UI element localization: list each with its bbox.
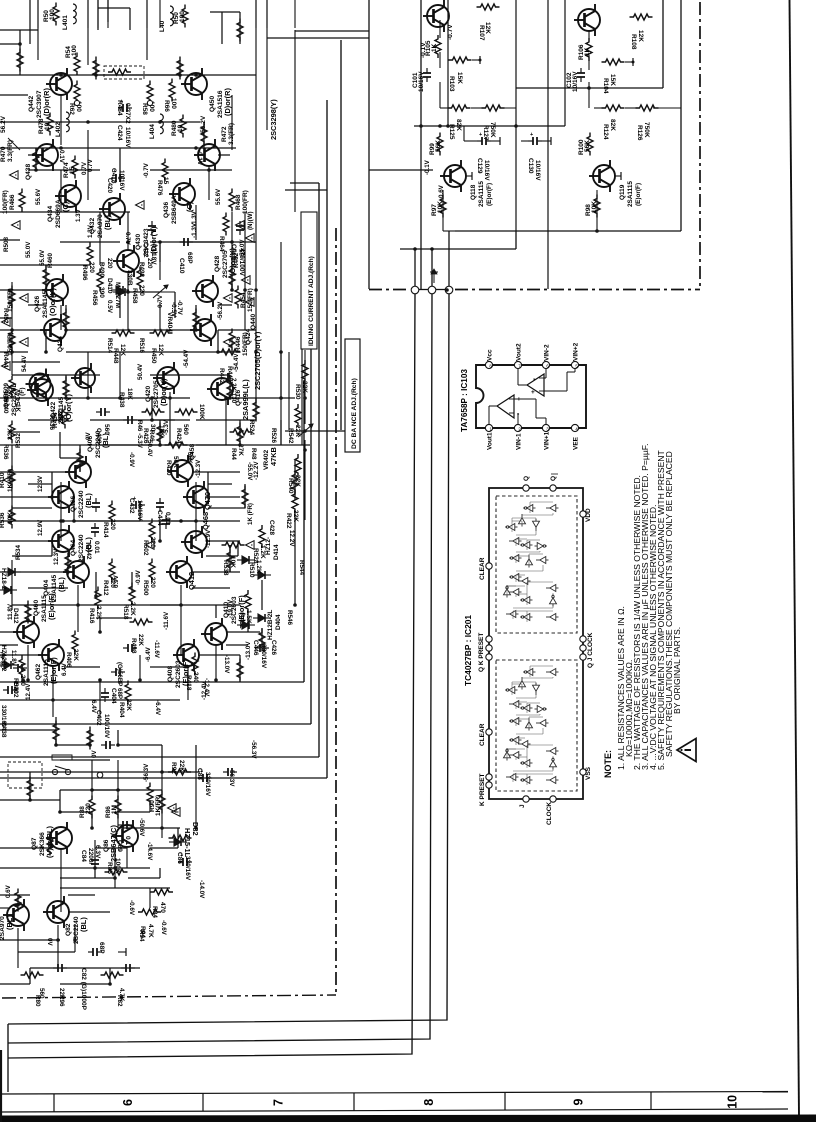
wire (97, 0, 99, 30)
svg-text:100K: 100K (198, 404, 205, 420)
svg-text:D404: D404 (275, 614, 282, 630)
svg-text:-13.0V: -13.0V (223, 655, 230, 674)
diode D404 HZ12B-2L (253, 614, 271, 622)
wire (12, 604, 28, 606)
wire (28, 587, 68, 589)
svg-text:IDLING CURRENT ADJ.(Rch): IDLING CURRENT ADJ.(Rch) (308, 256, 315, 346)
svg-text:Q82: Q82 (65, 923, 72, 936)
ruler bottom line (0, 1109, 788, 1112)
svg-text:R536: R536 (0, 512, 6, 528)
IC IC201 TC4027BP outline (489, 488, 583, 799)
resistor R476 15 (162, 159, 168, 182)
wire (0, 894, 30, 896)
wire (51, 472, 53, 497)
wire Q119 emitter down (596, 190, 598, 231)
svg-text:-0.5V: -0.5V (170, 302, 177, 318)
wire (95, 60, 97, 75)
svg-text:56K: 56K (435, 140, 442, 152)
page right border (790, 0, 800, 1117)
capacitor C130 10/16V (528, 137, 542, 145)
svg-text:1K: 1K (14, 404, 21, 413)
svg-text:Q: Q (523, 476, 530, 481)
svg-text:Q426: Q426 (34, 296, 41, 312)
svg-text:Q450: Q450 (209, 96, 216, 112)
svg-text:330B: 330B (126, 270, 133, 286)
resistor R105 1K (435, 35, 441, 58)
svg-text:VIN-1: VIN-1 (516, 433, 523, 450)
svg-text:10/16V: 10/16V (118, 170, 125, 191)
svg-text:C82 (G)1000P: C82 (G)1000P (80, 968, 87, 1011)
svg-text:R94: R94 (138, 930, 145, 942)
svg-text:C404: C404 (110, 688, 117, 704)
transistor Q458 (167, 455, 193, 487)
resistor (43, 266, 49, 289)
wire (244, 484, 246, 508)
ruler tick 2 (53, 1094, 55, 1112)
resistor (27, 777, 33, 800)
capacitor (123, 416, 137, 424)
svg-text:2SC2705(D)or(Y): 2SC2705(D)or(Y) (253, 331, 262, 390)
resistor R480 10 (180, 115, 186, 138)
wire (49, 836, 51, 848)
resistor R440 2.2K (9, 376, 15, 399)
wire (0, 699, 180, 701)
svg-text:15K: 15K (456, 72, 463, 84)
svg-text:R412: R412 (102, 580, 109, 596)
resistor R92 22K (168, 769, 191, 775)
svg-text:R472: R472 (221, 126, 228, 142)
svg-text:R530: R530 (294, 384, 301, 400)
svg-text:R544: R544 (298, 560, 305, 576)
wire C130 left (521, 140, 528, 142)
svg-text:12K: 12K (637, 30, 644, 42)
wire (0, 29, 38, 31)
wire top-right corner links (295, 30, 369, 32)
warning triangle (20, 338, 29, 347)
wire (247, 612, 249, 632)
wire (0, 540, 52, 542)
svg-text:56K: 56K (584, 140, 591, 152)
svg-text:L401: L401 (62, 15, 69, 30)
arrow symbol near connectors (433, 272, 435, 283)
wire (117, 730, 119, 745)
diode D414 HZ12B-2L (253, 571, 271, 579)
svg-text:C426: C426 (270, 640, 277, 656)
resistor R104 15K (602, 59, 625, 65)
wire (91, 812, 93, 828)
svg-text:18K: 18K (126, 388, 133, 400)
svg-text:1K(FR): 1K(FR) (155, 795, 162, 816)
wire (56, 744, 90, 746)
wire (19, 30, 21, 75)
wire (120, 827, 180, 829)
svg-text:3.3(FR): 3.3(FR) (7, 140, 14, 162)
svg-text:0.7V: 0.7V (81, 161, 88, 175)
svg-text:Q434: Q434 (47, 206, 54, 222)
wire (151, 398, 153, 420)
transistor Q464 (48, 525, 74, 557)
wire (0, 520, 240, 522)
svg-text:Q468: Q468 (201, 512, 210, 530)
transistor Q82 2SC2240 (43, 896, 69, 928)
resistor (227, 377, 233, 400)
svg-text:82K: 82K (455, 119, 462, 131)
resistor R62 100 (74, 81, 80, 104)
resistor R84 470 (150, 889, 173, 895)
resistor (147, 783, 153, 806)
resistor R412 220 (109, 501, 115, 524)
resistor (237, 423, 243, 446)
dashed box bottom relay (8, 762, 42, 788)
svg-text:(E)or(F): (E)or(F) (635, 183, 642, 206)
wire (128, 877, 160, 879)
svg-text:750K: 750K (489, 122, 496, 138)
wire (0, 397, 190, 399)
svg-text:6.3V: 6.3V (94, 845, 101, 859)
wire (99, 680, 101, 717)
wire (12, 555, 52, 557)
svg-text:R454: R454 (240, 292, 247, 308)
resistor (101, 972, 124, 978)
transistor Q422 (27, 374, 53, 406)
svg-text:2SA1115: 2SA1115 (627, 181, 634, 207)
svg-text:Vcc: Vcc (487, 349, 494, 361)
svg-text:D414: D414 (273, 544, 280, 560)
wire (0, 444, 310, 446)
svg-text:10: 10 (726, 1095, 740, 1109)
svg-text:+: + (530, 132, 533, 138)
transistor Q119 (589, 160, 615, 192)
diode (237, 621, 255, 629)
svg-text:12.9V: 12.9V (37, 519, 44, 536)
wire (160, 520, 196, 522)
capacitor C412 47/18V (148, 221, 156, 235)
wire (64, 666, 100, 668)
svg-text:7: 7 (272, 1099, 286, 1106)
svg-text:1K: 1K (584, 47, 591, 56)
wire (150, 604, 181, 606)
wire (261, 628, 263, 648)
svg-text:(BL): (BL) (103, 215, 112, 230)
warning triangle (246, 298, 255, 307)
svg-text:10/16V: 10/16V (534, 160, 541, 181)
resistor R420 56K (165, 442, 188, 448)
wire (28, 604, 240, 606)
wire (119, 292, 121, 318)
capacitor (156, 498, 164, 512)
svg-text:2SB649A: 2SB649A (171, 195, 178, 224)
svg-text:R458: R458 (131, 288, 138, 304)
wire (294, 512, 296, 605)
svg-text:2SA1115: 2SA1115 (478, 181, 485, 207)
wire (215, 605, 217, 618)
resistor R107 12K (477, 4, 500, 10)
svg-text:22K: 22K (7, 428, 14, 440)
svg-text:150(FR): 150(FR) (247, 288, 254, 312)
wire (94, 868, 96, 878)
resistor (77, 449, 83, 472)
svg-text:VEE: VEE (573, 436, 580, 450)
wire (67, 556, 69, 572)
wire (68, 894, 95, 896)
warning triangle (246, 541, 255, 550)
wire (127, 272, 129, 330)
transistor Q434 (55, 180, 81, 212)
svg-text:-56.3V: -56.3V (250, 740, 257, 759)
svg-text:R404: R404 (118, 702, 125, 718)
svg-text:R532: R532 (15, 432, 22, 448)
svg-text:-0.9V: -0.9V (128, 452, 135, 468)
resistor R127 750K (482, 105, 505, 111)
wire topright v516 (515, 0, 517, 231)
capacitor C432 10/16V (131, 501, 145, 509)
svg-text:R438: R438 (118, 392, 125, 408)
wire (229, 375, 231, 398)
wire (159, 521, 161, 541)
wire (120, 291, 160, 293)
svg-text:82K: 82K (609, 119, 616, 131)
wire (150, 169, 232, 171)
wire (29, 968, 31, 984)
pot VR402 47KB (285, 430, 345, 432)
resistor R464 (223, 213, 229, 236)
svg-text:R126: R126 (636, 125, 643, 141)
wire rail x311 (310, 300, 312, 724)
wire topright v516 lower (515, 231, 517, 249)
wire (0, 147, 236, 149)
wire (17, 895, 19, 905)
svg-text:R498: R498 (130, 638, 137, 654)
resistor R108 12K (630, 14, 653, 20)
IC103 pin 8 Vcc (485, 361, 492, 368)
IC201 upper flip-flop gates (504, 505, 559, 621)
wire (129, 8, 131, 30)
wire (0, 939, 60, 941)
svg-text:-0.1V: -0.1V (424, 159, 431, 175)
capacitor (223, 768, 237, 776)
svg-text:(BL): (BL) (84, 493, 93, 508)
svg-text:NOTE:: NOTE: (603, 750, 613, 778)
svg-text:-0.7V: -0.7V (447, 24, 454, 40)
svg-text:(BL): (BL) (57, 577, 66, 592)
svg-text:HZ12B-2L: HZ12B-2L (267, 610, 274, 640)
svg-text:(BL): (BL) (79, 917, 88, 932)
ruler tick 4 (353, 1093, 355, 1111)
svg-text:18K: 18K (158, 425, 165, 437)
svg-text:55.0V: 55.0V (39, 249, 46, 266)
svg-text:-11.6V: -11.6V (153, 640, 160, 659)
wire (231, 265, 233, 290)
wire (12, 431, 40, 433)
resistor R50 100 (53, 3, 59, 26)
svg-text:330/16V: 330/16V (184, 856, 191, 881)
svg-text:R92: R92 (170, 762, 177, 774)
transistor Q118 (440, 160, 466, 192)
IC201 pin CLOCK bottom (550, 796, 556, 802)
wire (288, 352, 290, 430)
resistor R448 12K (112, 330, 135, 336)
wire (150, 241, 256, 243)
svg-text:C420: C420 (106, 178, 113, 194)
resistor R540 22K (295, 454, 301, 477)
warning triangle (4, 476, 13, 485)
connector circle A (411, 286, 419, 294)
diode (3, 568, 21, 576)
resistor R125 82K (448, 105, 471, 111)
svg-text:150(FR): 150(FR) (242, 332, 249, 356)
svg-text:12.3V: 12.3V (53, 548, 60, 565)
svg-text:10K: 10K (7, 512, 14, 524)
diode D412 HZ18-2 (0, 586, 17, 594)
resistor R106 1K (586, 38, 592, 61)
chain border vertical right of top-right block (699, 2, 701, 289)
transistor Q410 (201, 618, 227, 650)
wire (195, 305, 197, 330)
svg-text:2200/: 2200/ (87, 848, 94, 864)
IC201 pin VDD (580, 511, 586, 517)
resistor R478 10 (47, 113, 53, 136)
resistor R528b 240 (19, 656, 25, 679)
bus rail 1 from connector A to bottom loop (8, 294, 415, 1058)
wire (198, 654, 240, 656)
wire (169, 392, 171, 445)
resistor R422 22K (292, 490, 298, 513)
wire (192, 587, 230, 589)
svg-text:(E)or(F): (E)or(F) (237, 595, 246, 622)
wire (109, 968, 111, 984)
wire (27, 605, 29, 620)
capacitor (53, 964, 67, 972)
transistor Q450 (181, 68, 207, 100)
diode (111, 286, 129, 294)
wire (208, 166, 210, 200)
svg-text:240: 240 (192, 672, 199, 683)
svg-text:10: 10 (44, 122, 51, 130)
wire (52, 667, 54, 717)
IC201 pin J bottom (523, 796, 529, 802)
capacitor C86 330/16V (178, 858, 192, 866)
svg-text:R509: R509 (3, 382, 10, 398)
svg-text:C424: C424 (116, 125, 123, 141)
wire (255, 0, 257, 398)
diode (237, 556, 255, 564)
op-amp U103b wires (517, 368, 519, 385)
wire (95, 847, 127, 849)
svg-text:100/10V: 100/10V (103, 714, 110, 739)
IC201 upper gate wires (529, 502, 531, 513)
wire (74, 520, 140, 522)
svg-text:68P: 68P (186, 252, 193, 264)
svg-text:220: 220 (88, 262, 95, 273)
svg-text:R48: R48 (250, 448, 257, 460)
wire (139, 655, 141, 680)
transistor Q86 2SB647 (112, 820, 138, 852)
label box IDLING CURRENT ADJ (301, 212, 317, 349)
svg-text:12.2V: 12.2V (288, 530, 295, 547)
resistor R424 (175, 409, 198, 415)
resistor (259, 629, 265, 652)
wire (217, 330, 219, 352)
svg-text:VSS: VSS (585, 766, 592, 780)
resistor (25, 601, 31, 624)
svg-text:R58: R58 (141, 103, 148, 115)
wire (12, 507, 52, 509)
svg-text:R534: R534 (15, 544, 22, 560)
wire (60, 457, 80, 459)
resistor (65, 553, 71, 576)
resistor (201, 123, 207, 146)
capacitor C446 330/16V (255, 644, 269, 652)
resistor (193, 309, 199, 332)
wire (0, 644, 18, 646)
capacitor C404 (111, 668, 125, 676)
resistor R536 22K (9, 421, 15, 444)
svg-text:12K: 12K (157, 344, 164, 356)
wire rail x319 (318, 183, 320, 757)
svg-text:-55.0V: -55.0V (246, 462, 253, 481)
IC103 pin 7 Vout2 (514, 361, 521, 368)
resistor R90 1K (159, 791, 165, 814)
svg-text:C84: C84 (80, 850, 87, 862)
resistor (237, 659, 243, 682)
wire (87, 130, 89, 200)
svg-text:R514: R514 (106, 338, 113, 354)
resistor R124 82K (602, 105, 625, 111)
capacitor C84 2200/6.3V (91, 855, 99, 869)
wire (218, 304, 232, 306)
svg-text:(BL): (BL) (101, 433, 110, 448)
wire (280, 352, 282, 398)
svg-text:22K: 22K (58, 988, 65, 1000)
chain segment between circles (419, 289, 428, 291)
wire (0, 771, 150, 773)
inductor L401 (73, 4, 76, 24)
resistor R412b 220 (109, 559, 115, 582)
connector circle C (445, 286, 453, 294)
svg-text:R460: R460 (47, 252, 54, 268)
wire (192, 471, 240, 473)
svg-text:0.1V: 0.1V (58, 150, 65, 164)
transistor Q430 (113, 245, 139, 277)
wire (60, 759, 110, 761)
wire (28, 419, 65, 421)
wire (150, 666, 188, 668)
wire (187, 667, 189, 700)
svg-text:C130: C130 (527, 158, 534, 174)
svg-text:R524: R524 (248, 420, 255, 436)
resistor R100 56K (587, 133, 593, 156)
wire (57, 925, 59, 968)
capacitor C418 10/16V (111, 174, 125, 182)
transistor Q436 (169, 178, 195, 210)
resistor (21, 972, 44, 978)
wire (117, 760, 119, 828)
IC103 pin 6 VIN-2 (542, 361, 549, 368)
svg-text:-55.0V: -55.0V (239, 239, 246, 258)
IC201 lower gate wires (529, 666, 531, 677)
wire (98, 7, 130, 9)
wire (159, 868, 161, 878)
svg-text:CLOCK: CLOCK (546, 802, 553, 825)
wire (294, 30, 296, 212)
wire (90, 419, 190, 421)
transistor Q442 (46, 68, 72, 100)
wire (195, 482, 197, 541)
wire (195, 205, 197, 240)
svg-text:54.4V: 54.4V (21, 355, 28, 372)
extra junction dots (18, 42, 22, 46)
wire (161, 772, 163, 838)
